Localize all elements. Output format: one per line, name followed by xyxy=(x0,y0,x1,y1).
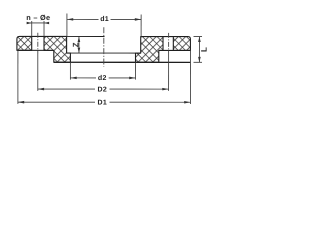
top face line over right bolt hole xyxy=(163,36,173,38)
d1 dimension line xyxy=(67,18,99,20)
rim bottom line left xyxy=(17,49,54,51)
svg-text:L: L xyxy=(200,47,209,52)
flange section right outer rim (hatched) xyxy=(173,37,190,51)
right bolt hole centerline xyxy=(168,33,170,51)
top face line over left bolt hole xyxy=(32,35,44,37)
svg-text:D2: D2 xyxy=(98,87,108,94)
D1 dimension line xyxy=(18,101,95,103)
d2 dimension line xyxy=(70,77,96,79)
Z dimension line xyxy=(78,36,80,53)
main centerline xyxy=(103,27,105,66)
D2 dimension line xyxy=(38,88,95,90)
bottom face line xyxy=(54,61,191,63)
d2 dimension extension lines xyxy=(69,62,71,79)
svg-text:n – Øe: n – Øe xyxy=(26,13,50,22)
d1 dimension extension lines xyxy=(66,13,68,36)
svg-text:d1: d1 xyxy=(100,15,109,23)
svg-text:d2: d2 xyxy=(98,74,107,82)
L dimension line xyxy=(198,37,200,63)
L dimension ticks xyxy=(194,36,203,38)
left bolt hole centerline xyxy=(37,33,39,51)
flange section right inner block with hub step (hatched) xyxy=(136,37,164,63)
rim bottom line right xyxy=(159,49,191,51)
svg-text:Z: Z xyxy=(71,42,80,47)
svg-text:D1: D1 xyxy=(98,100,108,107)
flange section left outer rim (hatched) xyxy=(17,36,32,50)
recess floor line xyxy=(67,52,141,54)
n-Oe dimension extension lines xyxy=(31,21,33,36)
Z reference line from recess corner to centerline xyxy=(67,35,105,37)
n-Oe dimension line with outside arrows xyxy=(27,22,49,24)
D2 dimension extension lines xyxy=(37,50,39,90)
D1 dimension extension lines xyxy=(17,50,19,103)
flange section left inner block with hub step (hatched) xyxy=(44,36,70,62)
